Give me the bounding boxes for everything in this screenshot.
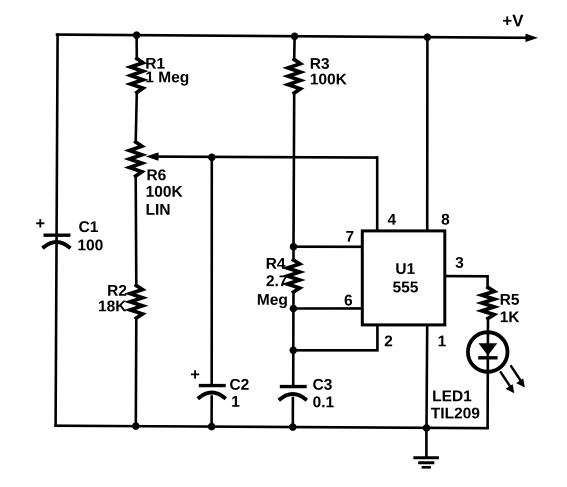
potentiometer R6 wiper arrowhead [146,152,159,160]
wire R4 to pin6 node [292,292,295,309]
ground bar 1 [415,456,438,459]
resistor R5 [482,288,494,319]
label pin 1 [439,336,446,347]
label C2 ref [230,379,249,390]
label C3 value [313,396,334,407]
label R6 ref [148,169,166,180]
node bottom rail R2 [132,422,140,430]
node bottom rail C3 [289,423,297,431]
label R1 ref [146,58,164,69]
node bottom rail ground [423,424,431,432]
wire pin 8 [426,37,429,231]
label R3 ref [311,58,329,69]
ground bar 3 [423,466,430,469]
+V supply arrowhead [526,34,539,42]
wire pin2 node to C3 [292,350,295,385]
wire C2 branch from wiper wire [210,157,213,384]
wire pin 4 [376,158,379,231]
wire bottom rail [56,426,488,429]
LED1 emission arrow 2 shaft [511,366,521,381]
label U1 type 555 [393,282,418,293]
capacitor C3 curved plate [280,394,305,399]
label U1 ref [396,263,414,274]
node pin2 junction [290,347,298,355]
wire C3 to bottom rail [291,398,294,427]
capacitor C1 curved plate [44,242,69,247]
label R1 value [146,72,188,86]
label pin 8 [442,214,450,225]
LED1 emission arrow 1 shaft [501,372,511,387]
wire left rail [56,35,58,426]
label R6 taper [147,204,170,215]
wire R5 through LED to bottom rail [486,319,489,429]
node pin7 junction [290,243,298,251]
label R5 ref [501,294,519,305]
wire C2 to bottom rail [210,397,213,427]
resistor R2 [130,286,142,319]
label C1 polarity + [36,219,44,227]
resistor R3 [288,60,300,94]
label +V supply [503,15,523,27]
capacitor C3 top plate [282,385,306,388]
wire pin 7 [294,245,363,248]
label R5 value [501,311,520,322]
label C1 ref [79,221,98,232]
node pin6 junction [290,305,298,313]
wire R2 to bottom rail [135,318,138,426]
label R6 value [147,186,183,197]
label pin 3 [456,257,464,268]
node top rail R3 [291,33,299,41]
wire pin 6 [293,307,362,310]
label pin 4 [388,214,396,225]
wire R1 to R6 [136,93,137,143]
node top rail R1 [133,31,141,39]
ground stub wire [425,428,428,457]
label R2 value [99,300,126,311]
wire pin 2 [293,325,377,350]
label R4 value 2.7 [266,275,286,286]
label C3 ref [313,379,332,390]
resistor R1 [131,59,143,93]
wire pin 1 [425,325,428,428]
label pin 2 [385,335,392,346]
resistor R4 [287,260,299,292]
wire R1 top lead [135,35,138,59]
wire R3 top lead [293,36,296,60]
op-amp style box IC U1 555 [362,231,445,325]
potentiometer R6 wiper arrow wire [152,157,377,158]
node bottom rail C2 [208,423,216,431]
capacitor C2 top plate [201,384,225,387]
label LED1 ref [433,391,471,402]
wire pin7 node to R4 [292,247,295,261]
wire pin6 node to pin2 node [292,309,295,351]
label R4 ref [267,258,286,269]
label R2 ref [108,285,126,296]
label pin 7 [346,231,353,242]
label C1 value [78,239,102,250]
label pin 6 [345,295,352,306]
node wiper wire C2 branch [208,154,216,162]
potentiometer R6 element [130,142,142,176]
wire pin 3 [445,276,488,288]
wire top rail to +V [57,35,531,38]
label R3 value [311,74,347,85]
capacitor C2 curved plate [199,393,224,398]
label C2 value [232,396,239,407]
capacitor C1 top plate [45,233,68,236]
wire R3 to pin7 node [292,93,295,247]
label LED1 type [431,408,479,419]
LED1 emission arrow 2 head [516,378,525,387]
LED1 diode triangle [479,343,498,355]
label C2 polarity + [191,370,199,378]
LED1 emission arrow 1 head [506,384,515,393]
LED1 cathode bar [478,356,497,359]
ground bar 2 [420,461,433,464]
label R4 value Meg [258,294,287,308]
wire R6 to R2 [134,176,137,286]
LED1 circle [468,332,508,372]
node top rail pin8 [424,33,432,41]
